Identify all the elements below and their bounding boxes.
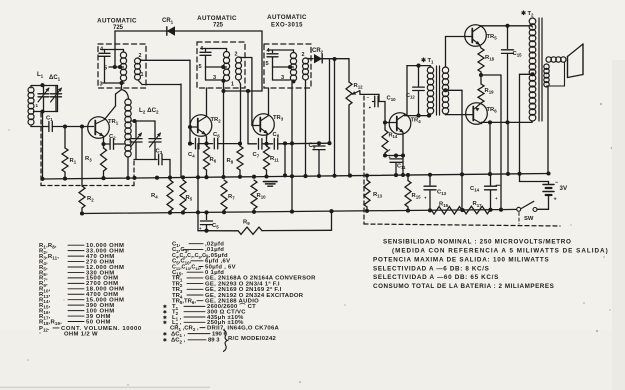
capacitor C8: [267, 132, 331, 149]
wire TR1 emitter node: [101, 136, 105, 146]
resistor R18: [478, 45, 495, 78]
resistor R10: [251, 180, 266, 212]
resistor R15: [405, 175, 421, 211]
svg-text:C13: C13: [437, 190, 447, 197]
audio module dashed box: [364, 96, 560, 226]
switch gang dashed: [518, 213, 520, 225]
svg-text:AUTOMATIC: AUTOMATIC: [97, 18, 137, 25]
wire into IF1 bottom: [119, 81, 123, 90]
wire C1 to base node: [52, 124, 93, 128]
svg-text:1: 1: [231, 82, 234, 88]
svg-text:C4: C4: [188, 152, 195, 159]
svg-text:R1: R1: [70, 158, 77, 165]
wire IF3 sec bottom to bus: [305, 80, 307, 176]
svg-text:3: 3: [100, 82, 103, 88]
svg-text:5: 5: [199, 64, 202, 70]
wire bottom supply rail: [80, 208, 517, 216]
capacitor C12: [406, 66, 424, 116]
capacitor C15: [502, 26, 523, 123]
resistor R7: [221, 180, 235, 212]
svg-text:L2 ΔC2: L2 ΔC2: [139, 107, 159, 115]
svg-text:3: 3: [281, 75, 284, 81]
label AUTOMATIC 725 first: [97, 18, 137, 32]
wire IF1 sec top to TR2 base line: [138, 58, 190, 60]
wire CR2 to C9: [327, 59, 331, 145]
svg-text:R3: R3: [85, 156, 92, 163]
svg-text:C3: C3: [156, 149, 163, 156]
battery 3V: [543, 180, 568, 203]
svg-text:C11: C11: [397, 164, 406, 171]
svg-text:C8: C8: [273, 132, 280, 139]
svg-text:CONSUMO TOTAL DE LA BATERI: CONSUMO TOTAL DE LA BATERIA : 2 MILIAMPE…: [373, 283, 554, 290]
wire R18 node to x501: [481, 75, 501, 210]
IF2 primary coil: [223, 49, 229, 82]
wire IF2 sec top to TR3 base: [239, 57, 252, 126]
svg-text:+: +: [495, 196, 498, 201]
IF2 pin 2: [235, 52, 238, 58]
wire TR6 collector: [482, 120, 533, 124]
speaker horn: [568, 44, 584, 78]
transistor TR2: [190, 115, 221, 137]
wire antenna box right: [57, 86, 59, 112]
IF3 top wire: [268, 49, 294, 51]
IF3 pin 2: [302, 52, 305, 58]
wire IF3 sec top to CR2: [306, 57, 314, 60]
IF2 top wire: [201, 48, 227, 50]
svg-text:C11,C13,C14,: C11,C13,C14,: [172, 264, 202, 271]
svg-text:R13: R13: [373, 192, 383, 199]
strap x198: [197, 144, 199, 231]
IF2 internal cap: [200, 49, 211, 68]
transformer T2 primary: [529, 18, 536, 122]
svg-text:TR5: TR5: [487, 34, 498, 41]
wire antenna box bottom: [34, 109, 58, 113]
resistor R14: [382, 123, 398, 158]
transistor TR3: [253, 114, 284, 136]
IF1 secondary coil: [135, 58, 141, 80]
svg-text:P12.: P12.: [39, 326, 50, 333]
wire IF1 sec bottom: [138, 80, 181, 85]
resistor R16 horizontal: [432, 202, 463, 215]
svg-text:CR1: CR1: [162, 18, 174, 25]
specifications text block: [373, 239, 609, 291]
label T2: [521, 10, 534, 18]
potentiometer R12: [346, 59, 363, 176]
IF1 pin 5 tap: [104, 65, 124, 72]
diode CR1: [162, 18, 175, 35]
svg-text:R16: R16: [439, 202, 449, 209]
capacitor C6: [207, 132, 243, 149]
svg-text:+: +: [554, 197, 557, 203]
wire T1 center tap: [443, 88, 462, 210]
IF can 1 dashed box: [98, 44, 146, 88]
label L2 dC2: [139, 107, 159, 115]
IF1 pin 2: [139, 53, 142, 59]
svg-text:R4: R4: [151, 193, 158, 200]
svg-text:+: +: [424, 196, 427, 201]
svg-text:3V: 3V: [560, 185, 568, 192]
switch SW: [517, 201, 537, 222]
wire T1 left loop: [407, 64, 430, 118]
svg-text:R11: R11: [270, 156, 279, 163]
svg-text:2: 2: [302, 52, 305, 58]
speaker voice coil: [544, 57, 566, 87]
svg-text:TR2: TR2: [211, 117, 222, 124]
IF2 secondary coil: [236, 57, 242, 80]
resistor R11: [264, 146, 280, 177]
wire x181 down to bus: [180, 84, 182, 177]
wire TR3 base: [252, 125, 260, 127]
svg-text:−: −: [367, 95, 370, 100]
svg-text:R9: R9: [243, 220, 250, 227]
svg-text:R2: R2: [87, 196, 94, 203]
wire L1 to C1: [31, 125, 49, 127]
svg-text:TR1: TR1: [108, 119, 119, 126]
svg-text:5: 5: [266, 61, 269, 67]
resistor R3: [85, 144, 107, 178]
svg-text:R15: R15: [412, 193, 422, 200]
svg-text:2: 2: [235, 52, 238, 58]
svg-text:C9: C9: [309, 143, 316, 150]
capacitor C11 electrolytic: [389, 148, 407, 175]
wire IF3 tap drop: [290, 81, 294, 211]
capacitor C3: [155, 149, 170, 165]
wire dC2 bottom: [134, 159, 155, 161]
wire TR4 collector: [405, 114, 432, 118]
svg-text:R6: R6: [210, 157, 217, 164]
resistor R2: [79, 124, 94, 213]
svg-text:R12: R12: [354, 83, 364, 90]
capacitor C7: [248, 139, 267, 159]
variable capacitor dC1 section b: [51, 86, 62, 112]
resistor R17 horizontal: [464, 201, 491, 214]
wire T2 center tap: [520, 72, 549, 181]
svg-text:L1: L1: [37, 72, 44, 79]
IF3 secondary coil: [303, 58, 309, 80]
svg-text:3: 3: [213, 75, 216, 81]
resistor R19: [478, 75, 494, 103]
svg-text:R10: R10: [257, 193, 267, 200]
svg-text:R8: R8: [227, 158, 234, 165]
ground symbol: [264, 182, 278, 187]
svg-text:R19: R19: [485, 88, 495, 95]
svg-text:CR2: CR2: [312, 48, 324, 55]
svg-text:C5: C5: [212, 223, 219, 230]
resistor R1: [62, 127, 77, 179]
IF1 pin 3 wire: [100, 82, 125, 88]
inductor L1 antenna coil: [28, 86, 34, 126]
svg-text:R/C MODEl0242: R/C MODEl0242: [228, 336, 277, 342]
svg-text:TR5,TR6,: TR5,TR6,: [172, 299, 196, 306]
IF3 primary coil: [290, 50, 296, 81]
wire TR4 base: [383, 102, 397, 125]
svg-text:C12: C12: [406, 93, 415, 100]
IF3 internal cap: [267, 50, 278, 67]
IF1 pin 1: [141, 72, 144, 78]
label tap 1: [36, 103, 39, 108]
capacitor C4: [188, 138, 207, 158]
svg-text:(MEDIDA CON REFERENCIA A: (MEDIDA CON REFERENCIA A 5 MILIWATTS DE …: [392, 248, 609, 255]
svg-text:89 3: 89 3: [208, 338, 220, 344]
wire C3 to R4: [169, 160, 171, 178]
svg-text:C10: C10: [387, 96, 397, 103]
inductor L2 oscillator coil: [122, 90, 132, 179]
IF2 pin 1: [231, 82, 234, 88]
svg-text:R7: R7: [228, 194, 235, 201]
svg-text:SW: SW: [524, 216, 534, 222]
svg-text:EXO-3015: EXO-3015: [271, 23, 303, 29]
capacitor C2: [104, 134, 125, 149]
IF1 pin 4: [100, 47, 104, 53]
transistor TR6: [466, 103, 498, 125]
IF can 3 dashed box: [264, 44, 311, 88]
wire TR2 emitter node: [204, 134, 208, 145]
IF1 primary coil: [120, 50, 126, 82]
wire AVC right drop: [261, 31, 263, 91]
wire TR2 base: [190, 126, 198, 128]
wire IF2 bottom tap: [221, 81, 225, 93]
svg-text:*: *: [389, 148, 391, 153]
IF2 pin 5 tap: [199, 64, 227, 80]
svg-text:ΔC2 ,: ΔC2 ,: [171, 338, 186, 345]
svg-text:TR6: TR6: [487, 107, 498, 114]
wire IF2 sec bottom to R8: [239, 80, 241, 144]
svg-text:50 OHM: 50 OHM: [86, 319, 111, 325]
wire x190 feed: [188, 60, 192, 145]
wire x508 to bus: [507, 122, 509, 173]
IF3 pin 4: [267, 48, 271, 54]
svg-text:SENSIBILIDAD NOMINAL : 250: SENSIBILIDAD NOMINAL : 250 MICROVOLTS/ME…: [383, 239, 572, 246]
resistor R4: [151, 180, 173, 213]
wire C5 R9 loop: [198, 211, 332, 233]
svg-text:C15: C15: [513, 51, 523, 58]
svg-text:AUTOMATIC: AUTOMATIC: [267, 14, 307, 21]
svg-text:C14: C14: [470, 186, 480, 193]
wire TR3 emitter node: [264, 133, 268, 146]
svg-text:5: 5: [104, 66, 107, 72]
resistor R9 horizontal: [238, 220, 262, 235]
gang dashed link dC1-dC2: [41, 113, 134, 186]
transformer T1 core: [437, 66, 440, 115]
wire T1 sec top to TR5 base: [446, 37, 473, 68]
capacitor C13 electrolytic: [424, 175, 447, 211]
svg-text:−: −: [555, 180, 558, 186]
transformer T1 secondary: [442, 67, 448, 114]
svg-text:C1: C1: [46, 116, 53, 123]
IF2 pin 4: [200, 46, 204, 52]
svg-text:725: 725: [213, 23, 224, 29]
resistor R8: [227, 144, 244, 177]
variable capacitor dC1 section a: [38, 86, 49, 112]
wire antenna box top: [31, 83, 58, 87]
resistor R13: [364, 176, 383, 211]
svg-text:TR4: TR4: [411, 118, 422, 125]
wire main B- bus: [40, 171, 550, 181]
transformer T2 core: [539, 18, 542, 121]
svg-text:ΔC1: ΔC1: [49, 75, 61, 82]
parts list resistors: [39, 243, 142, 338]
IF1 internal cap: [99, 50, 110, 84]
wire TR3 collector: [268, 88, 270, 116]
variable capacitor dC2 section b: [149, 121, 161, 160]
parts list capacitors transistors: [163, 242, 316, 352]
svg-text:R5: R5: [186, 195, 193, 202]
wire battery to switch: [537, 195, 549, 209]
IF2 pin 3: [213, 75, 226, 83]
wire TR5 collector: [481, 24, 532, 28]
svg-text:POTENCIA MAXIMA DE SALIDA:: POTENCIA MAXIMA DE SALIDA: 100 MILIWATTS: [373, 257, 550, 264]
IF3 pin 5 tap: [266, 61, 294, 80]
variable capacitor dC2 section a: [130, 121, 142, 160]
svg-text:R14: R14: [389, 133, 398, 140]
wire speaker return: [547, 86, 549, 174]
svg-text:C6: C6: [213, 132, 220, 139]
svg-text:R17: R17: [473, 201, 483, 208]
capacitor C5 electrolytic: [199, 212, 219, 231]
wire dC2 top: [131, 119, 155, 123]
wire CR2 out: [323, 58, 349, 60]
label AUTOMATIC 725 second: [197, 15, 237, 29]
wire AVC top line: [115, 31, 262, 67]
label AUTOMATIC EXO-3015: [267, 14, 307, 29]
wire CR2 to bus: [332, 57, 336, 176]
label T1: [421, 57, 434, 65]
IF1 top wire: [101, 49, 124, 51]
svg-text:R18: R18: [485, 55, 495, 62]
svg-text:C2: C2: [109, 134, 116, 141]
capacitor C10: [360, 91, 396, 109]
label L1 dC1: [37, 72, 61, 82]
transistor TR5: [465, 25, 498, 47]
capacitor C1: [46, 116, 53, 132]
wire C8 node to bus: [283, 141, 287, 177]
resistor R6: [204, 146, 217, 177]
wire TR1 collector up: [105, 90, 122, 120]
wire antenna return: [42, 112, 44, 180]
svg-text:TR3: TR3: [273, 115, 284, 122]
IF3 pin 3: [281, 75, 296, 83]
wire TR2 collector: [206, 88, 208, 117]
wire x490 to bus: [489, 122, 491, 174]
resistor R5: [180, 180, 193, 213]
svg-text:1: 1: [141, 72, 144, 78]
transistor TR1: [88, 117, 119, 139]
wire T1 sec bottom to TR6 base: [446, 113, 474, 116]
transformer T1 primary: [427, 66, 433, 116]
svg-text:SELECTIVIDAD A —60 DB: 65: SELECTIVIDAD A —60 DB: 65 KC/S: [373, 274, 499, 281]
svg-text:725: 725: [113, 25, 124, 31]
wire emitter node TR4: [385, 132, 405, 175]
wire y91 detector feed: [224, 89, 263, 177]
diode CR2: [312, 48, 324, 63]
capacitor C9: [309, 141, 326, 176]
capacitor C14 electrolytic: [470, 174, 500, 210]
svg-text:OHM 1/2 W: OHM 1/2 W: [64, 332, 98, 338]
svg-text:C7: C7: [253, 152, 260, 159]
svg-text:SELECTIVIDAD A —6 DB: 8 K: SELECTIVIDAD A —6 DB: 8 KC/S: [373, 266, 489, 273]
IF can 2 dashed box: [197, 42, 245, 88]
transistor TR4: [389, 113, 421, 135]
svg-text:AUTOMATIC: AUTOMATIC: [197, 15, 237, 22]
